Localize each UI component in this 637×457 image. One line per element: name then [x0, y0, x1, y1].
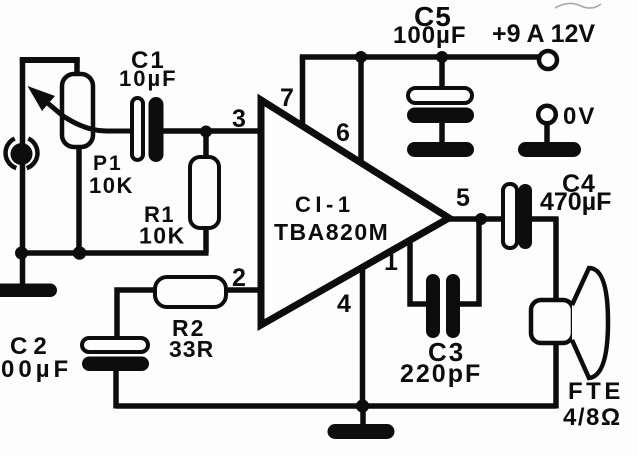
- capacitor C4: [503, 184, 532, 249]
- wire bottom rail: [116, 403, 556, 409]
- wire R2 left down to C2: [117, 290, 156, 341]
- svg-text:470µF: 470µF: [540, 188, 611, 216]
- wire down to speaker: [553, 217, 559, 303]
- junction mic rail: [15, 247, 28, 260]
- resistor R1: [190, 157, 219, 228]
- wire C5 top leg: [439, 57, 445, 91]
- resistor R2: [155, 277, 226, 307]
- svg-text:+9 A 12V: +9 A 12V: [492, 20, 595, 48]
- wire pin7 leg: [300, 56, 306, 128]
- ground bottom-left: [0, 284, 57, 298]
- svg-text:5: 5: [456, 184, 470, 212]
- junction P1 rail: [73, 246, 87, 260]
- wire P1 top leg: [74, 58, 80, 78]
- scan mark top right: [555, 3, 601, 8]
- wire R1 top leg: [203, 131, 209, 160]
- svg-text:6: 6: [336, 119, 350, 147]
- wire pin1 leg: [410, 242, 428, 304]
- svg-text:P1: P1: [93, 152, 123, 175]
- svg-text:10µF: 10µF: [119, 66, 178, 91]
- wire C1 to pin 3: [163, 128, 260, 134]
- wire mic top leg: [20, 58, 26, 150]
- terminal +9/12V: [539, 51, 557, 69]
- junction pin5 node: [475, 213, 487, 225]
- wire pin6 leg: [358, 57, 364, 163]
- svg-text:0V: 0V: [563, 103, 596, 130]
- wire 0V leg: [544, 121, 550, 144]
- op-amp CI-1 TBA820M: [261, 100, 449, 325]
- svg-text:4/8Ω: 4/8Ω: [563, 404, 622, 431]
- svg-text:33R: 33R: [169, 336, 214, 362]
- potentiometer P1: [62, 74, 93, 147]
- junction pin4 ground node: [356, 399, 369, 412]
- svg-text:220pF: 220pF: [400, 360, 482, 388]
- wire mic bottom leg: [20, 158, 26, 288]
- svg-text:FTE: FTE: [568, 378, 624, 405]
- svg-text:00µF: 00µF: [1, 356, 72, 383]
- speaker FTE: [531, 268, 608, 378]
- svg-text:10K: 10K: [89, 173, 134, 198]
- wire R2 right to pin 2: [226, 287, 260, 293]
- ground under C5: [407, 142, 474, 157]
- terminal 0V: [538, 106, 556, 124]
- wire R1 bottom leg: [203, 226, 209, 253]
- svg-text:CI-1: CI-1: [295, 192, 355, 217]
- potentiometer wiper arrow: [28, 86, 135, 131]
- wire C3 riser to pin5: [459, 218, 479, 304]
- wire C2 bottom leg: [113, 370, 119, 409]
- svg-text:1: 1: [384, 248, 398, 276]
- wire C4 to speaker: [531, 216, 558, 222]
- svg-text:7: 7: [280, 84, 294, 112]
- svg-text:TBA820M: TBA820M: [274, 219, 389, 245]
- junction C5 rail: [436, 51, 448, 63]
- capacitor C2: [82, 338, 149, 371]
- capacitor C5: [407, 88, 474, 123]
- capacitor C3: [426, 274, 460, 338]
- svg-text:10K: 10K: [139, 223, 186, 249]
- node junction pin3/R1: [200, 126, 212, 138]
- svg-text:3: 3: [232, 105, 246, 133]
- wire top horizontal mic loop: [20, 57, 80, 63]
- svg-text:100µF: 100µF: [393, 22, 467, 49]
- capacitor C1: [132, 97, 164, 162]
- wire output pin5: [449, 216, 505, 222]
- wire speaker bottom leg: [553, 342, 559, 409]
- ground under 0V: [518, 142, 581, 157]
- junction pin6 rail: [355, 51, 367, 63]
- wire pin4 leg: [360, 268, 366, 408]
- wire C5 bottom leg: [439, 121, 445, 144]
- wire P1 bottom leg: [76, 146, 82, 255]
- svg-text:2: 2: [232, 264, 246, 292]
- svg-text:4: 4: [337, 290, 351, 318]
- ground center: [328, 424, 395, 439]
- wire ground leg center: [360, 406, 366, 426]
- microphone: [6, 139, 38, 169]
- wire top supply rail: [300, 54, 541, 60]
- wire lower-left rail: [18, 250, 209, 256]
